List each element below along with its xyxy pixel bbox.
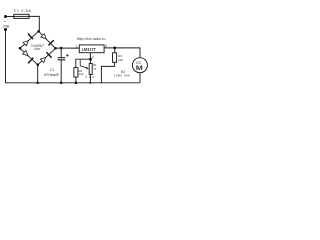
svg-text:F1 0.5A: F1 0.5A	[14, 8, 31, 13]
diode D2 (top to right)	[40, 32, 53, 45]
junction R2/rail	[75, 82, 78, 85]
wire terminal2 down and along bottom rail	[6, 31, 141, 83]
wire R1 to rail	[89, 74, 91, 82]
node bridge top	[37, 30, 40, 33]
resistor R3	[113, 53, 117, 63]
junction R1/rail	[89, 82, 91, 84]
junction bridge-bottom/rail	[36, 82, 39, 85]
wire junction to cap	[60, 48, 62, 57]
svg-text:LM317T: LM317T	[82, 47, 96, 52]
bridge wire bottom-right	[38, 48, 56, 65]
svg-text:M: M	[136, 65, 143, 72]
motor M1	[132, 58, 147, 73]
junction ADJ	[89, 58, 92, 61]
wire junction to R3	[114, 48, 116, 53]
capacitor C1	[58, 57, 66, 59]
AC input terminal 2	[4, 28, 7, 31]
potentiometer R1	[89, 64, 92, 75]
wire R2 to rail	[75, 77, 77, 83]
resistor R2	[74, 68, 78, 77]
wire R3 to rail	[101, 62, 114, 83]
wire ADJ to R2	[76, 59, 91, 67]
wire ADJ to R1	[89, 59, 91, 63]
svg-text:1: 1	[76, 45, 78, 49]
diode D1 (left to top)	[21, 34, 33, 46]
wire terminal1 to fuse	[7, 16, 15, 18]
node bridge left	[19, 47, 22, 50]
wire bridge bottom to rail	[37, 65, 39, 83]
plus sign of C1	[66, 54, 69, 57]
svg-text:2: 2	[92, 55, 94, 59]
junction cap/rail	[60, 82, 63, 85]
node bridge bottom	[37, 64, 40, 67]
diode D3 (left to bottom)	[21, 51, 34, 64]
AC input terminal 1	[4, 15, 7, 18]
regulator U1 LM317 box	[79, 45, 104, 53]
wire motor to rail	[139, 73, 141, 83]
svg-text:3: 3	[105, 44, 107, 48]
svg-text:240: 240	[118, 58, 123, 62]
wire cap to rail	[60, 60, 62, 83]
junction cap top	[60, 47, 63, 50]
wire LM317 output	[104, 47, 140, 49]
svg-text:C1: C1	[50, 68, 54, 72]
bridge wire left-top	[20, 31, 39, 48]
svg-text:http://xxl-radio.ru: http://xxl-radio.ru	[77, 37, 106, 41]
svg-text:470мкФ: 470мкФ	[44, 73, 60, 77]
wire fuse to bridge top node	[29, 16, 39, 31]
wire output down to motor	[139, 48, 141, 58]
wiper arrow of R1	[80, 60, 87, 68]
svg-text:24В: 24В	[3, 24, 10, 28]
bridge wire top-right	[39, 31, 56, 48]
node bridge right	[54, 47, 57, 50]
svg-text:24ВС.45А: 24ВС.45А	[114, 74, 130, 78]
fuse F1	[14, 14, 29, 18]
svg-text:4шт: 4шт	[34, 47, 41, 51]
wire bridge right to LM317 input	[56, 47, 80, 49]
ADJ pin stub	[89, 53, 91, 60]
junction output/R3	[113, 47, 116, 50]
bridge wire left-bottom	[20, 48, 38, 65]
svg-text:240: 240	[78, 72, 83, 76]
svg-text:1к2: 1к2	[85, 75, 94, 79]
diode D4 (bottom to right)	[40, 52, 52, 64]
